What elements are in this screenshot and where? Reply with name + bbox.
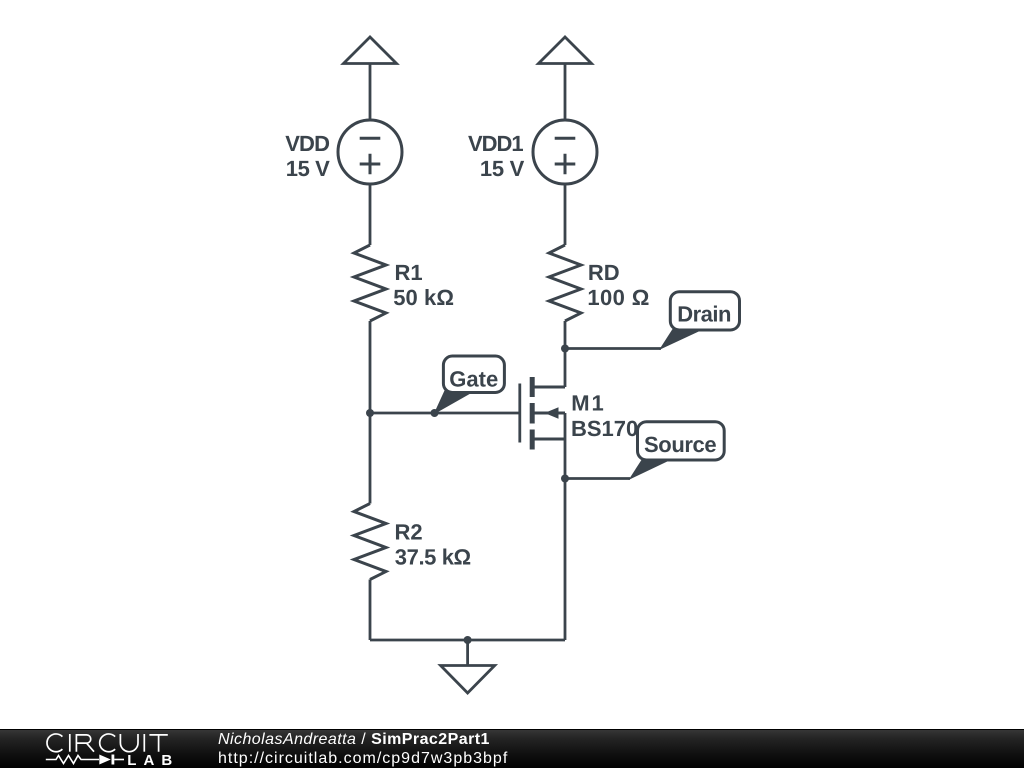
- ground symbol: [441, 666, 495, 694]
- wire drain node to flag: [565, 347, 661, 350]
- junction dot source node: [561, 475, 569, 483]
- svg-text:50 kΩ: 50 kΩ: [393, 285, 454, 310]
- resistor RD: [549, 245, 581, 321]
- wire bottom rail: [370, 639, 565, 642]
- voltage source VDD circle: [338, 120, 402, 184]
- power flag VDD arrow: [344, 37, 397, 64]
- svg-text:M1: M1: [571, 390, 604, 415]
- svg-text:R1: R1: [395, 260, 423, 285]
- flag Gate tail: [434, 391, 475, 415]
- svg-text:Gate: Gate: [449, 367, 498, 392]
- svg-text:VDD1: VDD1: [468, 131, 524, 156]
- transistor M1 channel bottom dash: [530, 430, 535, 450]
- junction dot gate node: [366, 409, 374, 417]
- minus sign VDD: [360, 137, 381, 140]
- wire gate horizontal: [370, 412, 520, 415]
- wire RD to drain node: [564, 321, 567, 387]
- junction dot ground node: [464, 636, 472, 644]
- plus sign VDD: [360, 154, 381, 175]
- transistor M1 bulk arrow: [545, 407, 559, 418]
- svg-text:15 V: 15 V: [480, 156, 525, 181]
- wire R2 to bottom rail: [369, 580, 372, 641]
- wire source node to flag: [565, 477, 630, 480]
- junction dot gate flag anchor: [431, 409, 439, 417]
- svg-text:LAB: LAB: [127, 752, 179, 768]
- flag Drain box: [670, 292, 739, 330]
- transistor M1 drain stub: [533, 386, 565, 389]
- svg-text:VDD: VDD: [285, 131, 330, 156]
- svg-text:RD: RD: [588, 260, 620, 285]
- svg-text:R2: R2: [395, 519, 423, 544]
- junction dot drain node: [561, 345, 569, 353]
- transistor M1 bulk stub: [533, 412, 565, 415]
- resistor R2: [354, 504, 386, 580]
- CircuitLab logo: [0, 730, 180, 768]
- wire M1 source to source node: [564, 413, 567, 479]
- transistor M1 source stub: [533, 438, 565, 441]
- wire gate node to R2: [369, 413, 372, 504]
- wire VDD1 arrow to source: [564, 64, 567, 121]
- wire R1 to gate node: [369, 321, 372, 413]
- svg-text:100 Ω: 100 Ω: [587, 285, 649, 310]
- resistor R1: [354, 245, 386, 321]
- flag Source box: [638, 422, 725, 460]
- power flag VDD1 arrow: [539, 37, 592, 64]
- wire VDD arrow to source: [369, 64, 372, 121]
- flag Drain tail: [659, 328, 703, 351]
- transistor M1 gate bar: [518, 384, 521, 443]
- flag Source tail: [629, 458, 673, 481]
- svg-text:Source: Source: [644, 432, 717, 457]
- plus sign VDD1: [555, 154, 576, 175]
- flag Gate box: [443, 356, 504, 393]
- minus sign VDD1: [555, 137, 576, 140]
- wire VDD1 to RD: [564, 184, 567, 245]
- bottom bar: [0, 729, 1024, 768]
- svg-text:37.5 kΩ: 37.5 kΩ: [395, 545, 471, 570]
- wire source node to bottom rail: [564, 479, 567, 641]
- svg-text:15 V: 15 V: [286, 156, 330, 181]
- svg-text:Drain: Drain: [677, 302, 731, 327]
- transistor M1 channel top dash: [530, 377, 535, 397]
- transistor M1 channel middle dash: [530, 403, 535, 424]
- voltage source VDD1 circle: [533, 120, 597, 184]
- wire ground stem: [466, 640, 469, 666]
- wire VDD to R1: [369, 184, 372, 245]
- svg-text:BS170: BS170: [571, 416, 638, 441]
